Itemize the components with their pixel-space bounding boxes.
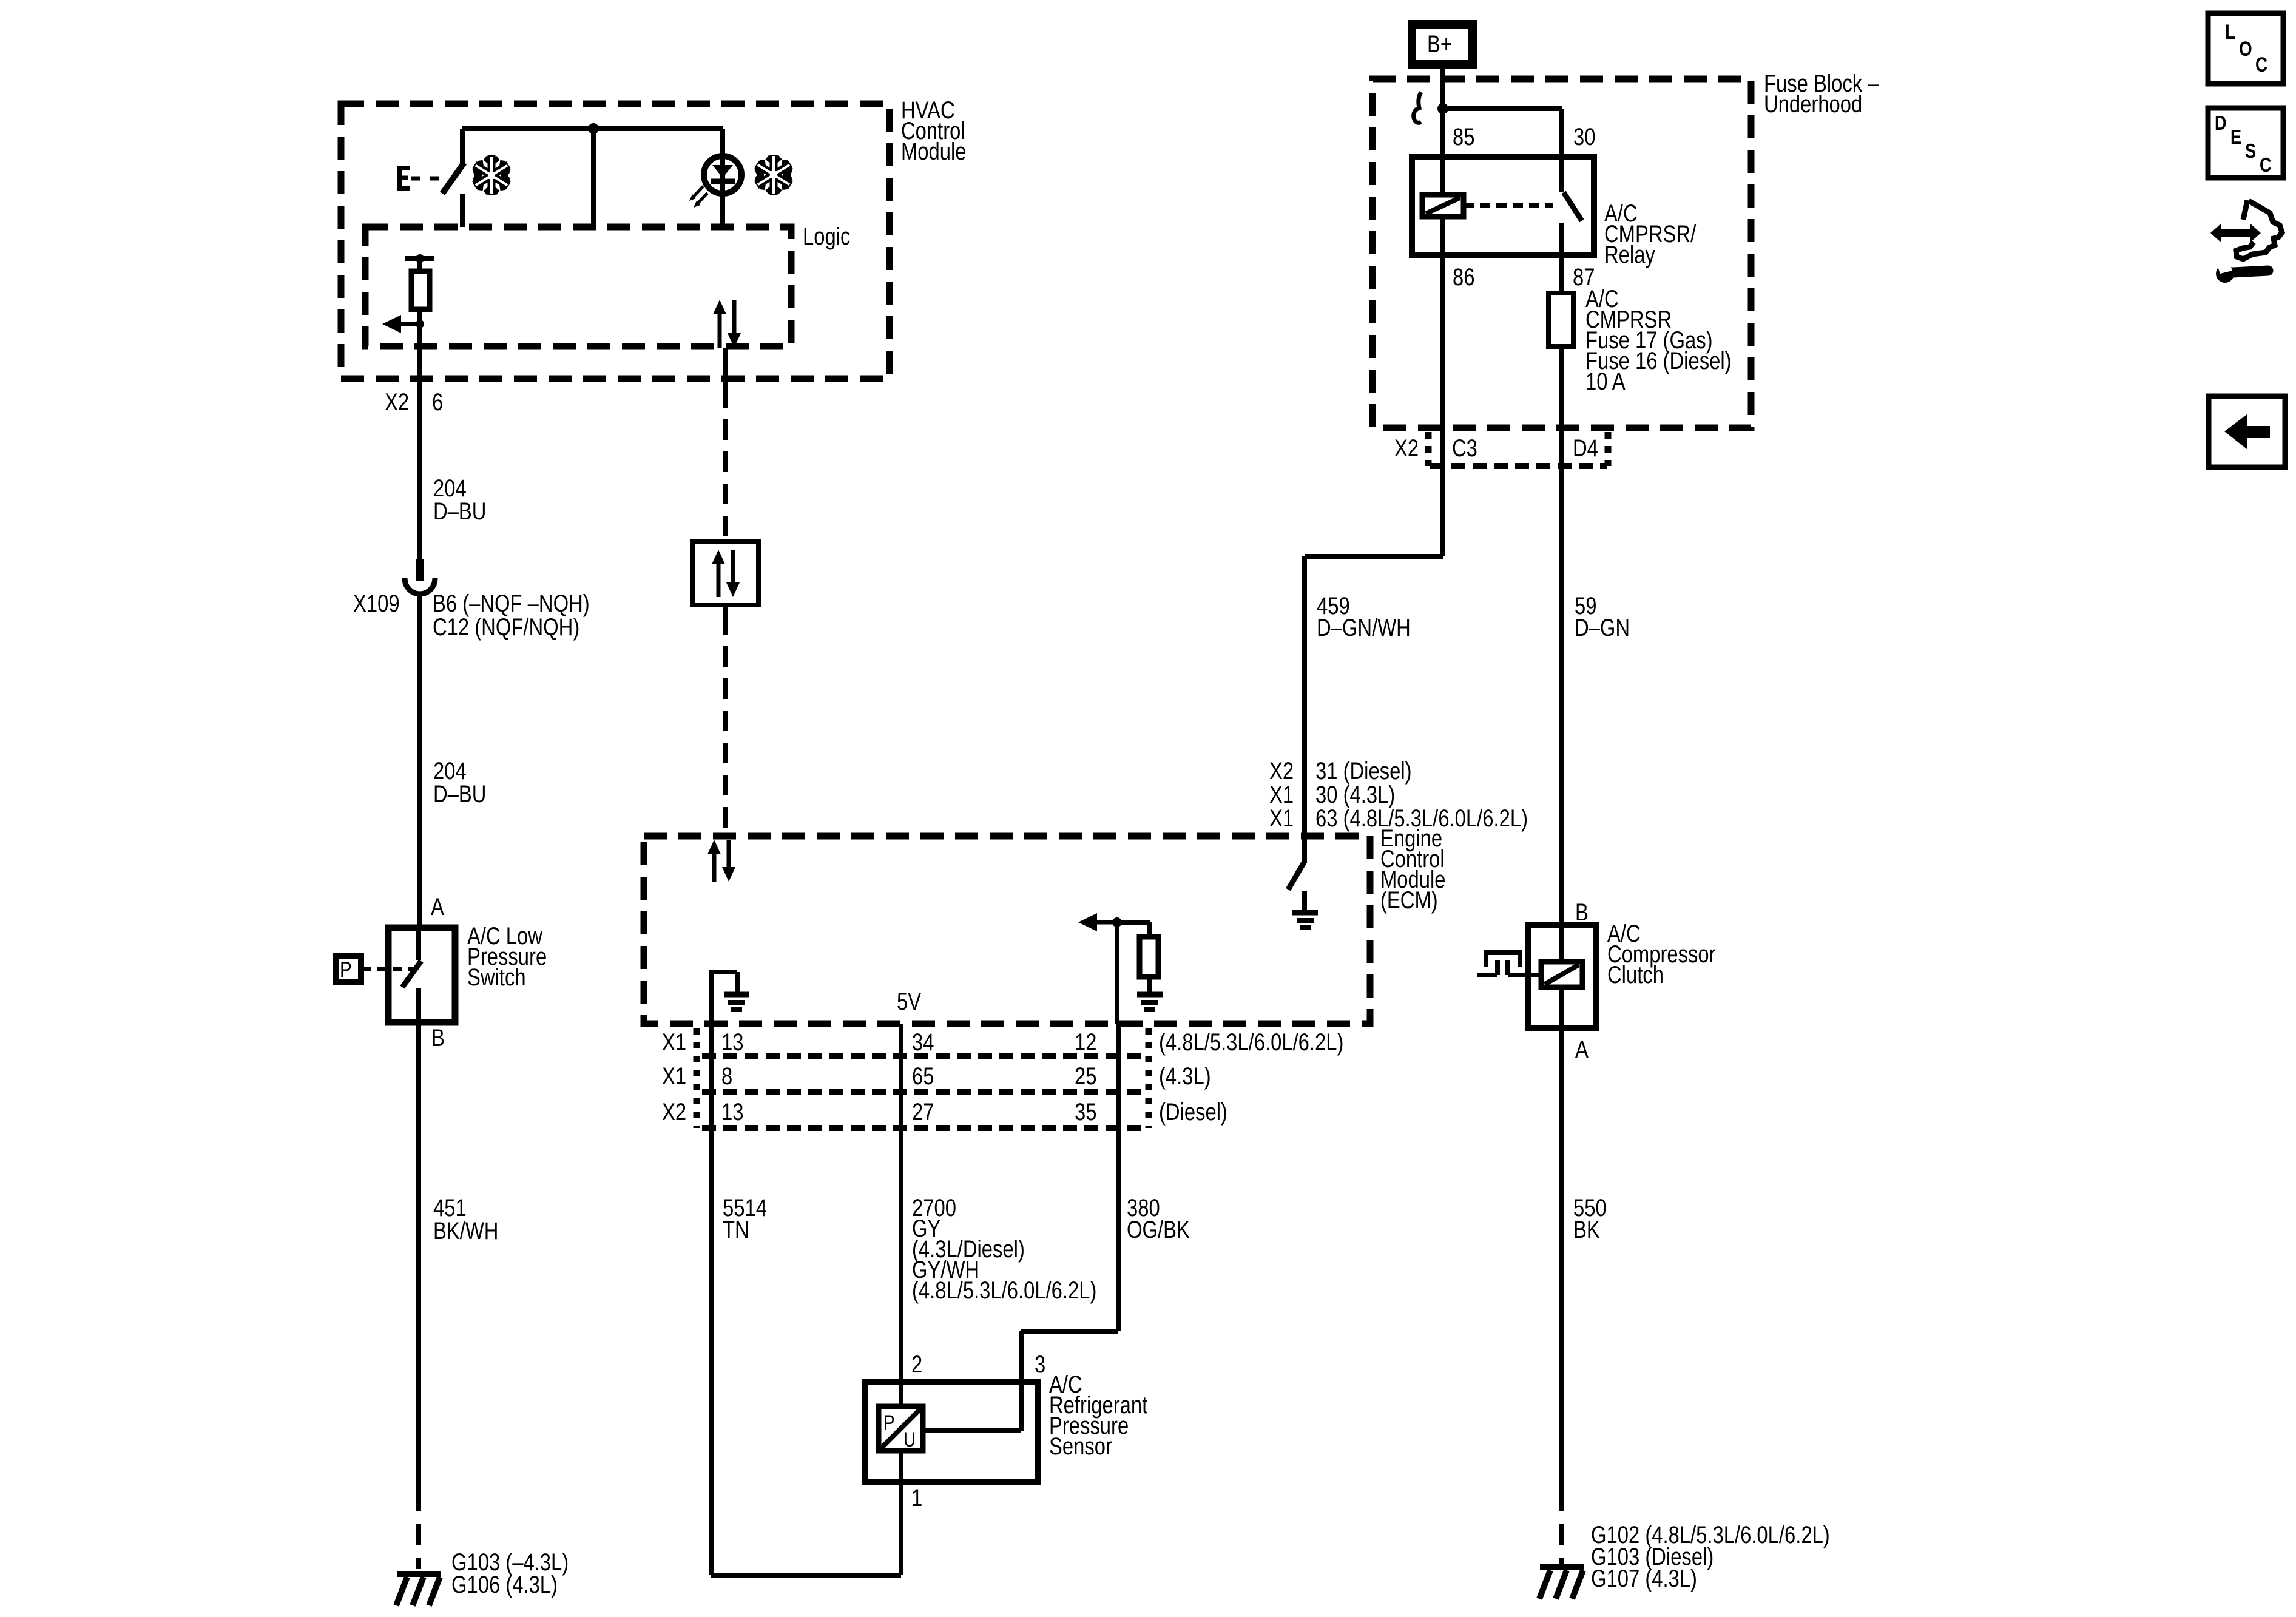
svg-text:C3: C3 — [1452, 434, 1477, 462]
svg-text:(4.8L/5.3L/6.0L/6.2L): (4.8L/5.3L/6.0L/6.2L) — [1159, 1028, 1343, 1056]
svg-text:(4.8L/5.3L/6.0L/6.2L): (4.8L/5.3L/6.0L/6.2L) — [912, 1277, 1096, 1304]
svg-text:X1: X1 — [662, 1028, 686, 1056]
svg-text:P: P — [883, 1411, 895, 1434]
svg-text:B: B — [1575, 899, 1589, 926]
svg-text:D4: D4 — [1573, 434, 1598, 462]
svg-text:63 (4.8L/5.3L/6.0L/6.2L): 63 (4.8L/5.3L/6.0L/6.2L) — [1315, 805, 1528, 832]
svg-text:C12 (NQF/NQH): C12 (NQF/NQH) — [433, 613, 579, 641]
svg-text:12: 12 — [1075, 1028, 1096, 1056]
svg-text:Clutch: Clutch — [1607, 961, 1664, 988]
svg-text:Sensor: Sensor — [1049, 1433, 1112, 1460]
svg-text:E: E — [2230, 127, 2241, 149]
svg-text:TN: TN — [723, 1216, 749, 1243]
svg-text:A: A — [1575, 1036, 1589, 1063]
svg-text:10 A: 10 A — [1585, 368, 1626, 395]
svg-text:30: 30 — [1573, 123, 1595, 150]
svg-text:G106 (4.3L): G106 (4.3L) — [451, 1571, 558, 1598]
svg-text:8: 8 — [721, 1062, 732, 1090]
svg-text:D: D — [2215, 113, 2227, 135]
svg-text:B: B — [431, 1024, 445, 1052]
svg-text:35: 35 — [1075, 1098, 1096, 1126]
svg-text:X2: X2 — [662, 1098, 686, 1126]
svg-text:P: P — [340, 957, 352, 981]
svg-text:34: 34 — [912, 1028, 934, 1056]
svg-text:Relay: Relay — [1604, 241, 1655, 268]
svg-text:Logic: Logic — [803, 223, 850, 250]
svg-text:A: A — [431, 893, 444, 920]
svg-text:86: 86 — [1453, 263, 1474, 291]
svg-text:U: U — [903, 1428, 916, 1451]
svg-text:Underhood: Underhood — [1764, 90, 1862, 118]
svg-text:25: 25 — [1075, 1062, 1096, 1090]
svg-text:3: 3 — [1035, 1351, 1045, 1378]
svg-text:L: L — [2225, 20, 2235, 43]
svg-text:C: C — [2260, 155, 2272, 177]
svg-text:BK/WH: BK/WH — [433, 1217, 498, 1244]
svg-text:D–BU: D–BU — [433, 780, 486, 808]
svg-text:(Diesel): (Diesel) — [1159, 1098, 1227, 1126]
svg-text:85: 85 — [1453, 123, 1474, 150]
svg-text:D–BU: D–BU — [433, 498, 486, 525]
svg-text:OG/BK: OG/BK — [1127, 1216, 1190, 1243]
svg-text:G107 (4.3L): G107 (4.3L) — [1591, 1565, 1697, 1592]
svg-text:X2: X2 — [1394, 434, 1419, 462]
svg-text:BK: BK — [1573, 1216, 1600, 1243]
svg-text:X1: X1 — [1269, 805, 1294, 832]
svg-text:D–GN/WH: D–GN/WH — [1317, 614, 1411, 641]
svg-text:D–GN: D–GN — [1575, 614, 1630, 641]
svg-text:B+: B+ — [1427, 30, 1452, 58]
svg-text:13: 13 — [721, 1098, 743, 1126]
svg-text:(ECM): (ECM) — [1380, 886, 1438, 914]
svg-text:1: 1 — [911, 1484, 922, 1511]
svg-text:5V: 5V — [897, 988, 922, 1015]
svg-text:65: 65 — [912, 1062, 934, 1090]
svg-text:X1: X1 — [662, 1062, 686, 1090]
svg-text:27: 27 — [912, 1098, 934, 1126]
svg-text:2: 2 — [911, 1351, 922, 1378]
svg-text:Switch: Switch — [467, 964, 526, 991]
svg-text:13: 13 — [721, 1028, 743, 1056]
svg-text:C: C — [2255, 53, 2267, 76]
svg-text:(4.3L): (4.3L) — [1159, 1062, 1211, 1090]
svg-text:Module: Module — [901, 138, 967, 165]
svg-text:X2: X2 — [385, 388, 409, 416]
svg-text:6: 6 — [432, 388, 443, 416]
svg-text:S: S — [2245, 141, 2256, 163]
svg-text:X109: X109 — [353, 590, 400, 617]
svg-text:O: O — [2239, 37, 2252, 60]
